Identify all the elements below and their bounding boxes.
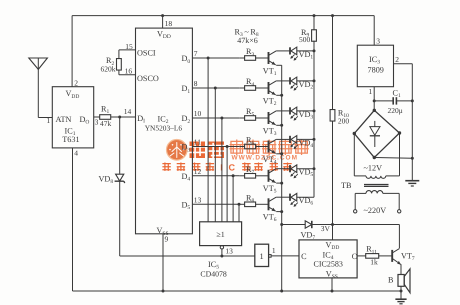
node VD2/rail — [313, 79, 316, 82]
resistor R5 — [245, 116, 256, 121]
svg-text:C: C — [301, 252, 307, 261]
svg-text:VDD: VDD — [326, 241, 340, 252]
wire IC1 pin4 down — [72, 148, 74, 291]
wire IC2 pin 11 to R6 — [192, 146, 239, 148]
terminal circle left — [354, 210, 357, 213]
node emitter rail row 4 — [280, 152, 283, 155]
ground right — [405, 180, 419, 182]
wire R7 to VT5 base — [256, 175, 269, 177]
svg-text:13: 13 — [225, 247, 233, 256]
watermark text weiku bold — [190, 142, 206, 159]
LED VD1 — [289, 47, 291, 54]
transistor VT5 — [268, 170, 270, 182]
wire bottom rail — [73, 290, 402, 292]
svg-text:VD8: VD8 — [99, 174, 114, 185]
svg-text:200: 200 — [338, 116, 350, 125]
wire VD2 anode to R9 rail — [297, 80, 314, 82]
svg-text:12: 12 — [194, 167, 202, 176]
wire top rail to IC3 pin3 — [373, 16, 375, 46]
resistor R2 620k — [118, 50, 120, 59]
wire speaker to bottom rail — [400, 286, 402, 291]
watermark logo circle — [167, 140, 188, 161]
wire 3V node to IC4 VDD — [332, 225, 334, 240]
node bridge bottom — [373, 156, 376, 159]
svg-text:10: 10 — [194, 109, 202, 118]
resistor R4 — [245, 86, 256, 91]
svg-text:D1: D1 — [182, 84, 191, 95]
wire IC2 pin 10 to R5 — [192, 117, 239, 119]
node bridge right — [398, 131, 401, 134]
transistor VT7 — [391, 250, 393, 262]
resistor R7 — [245, 174, 256, 179]
transistor VT6 — [268, 198, 270, 210]
LED VD2 — [289, 77, 291, 84]
voltage regulator IC3 7809 — [357, 45, 393, 86]
node 3V — [331, 223, 334, 226]
svg-text:8: 8 — [194, 79, 198, 88]
node emitter rail / VD7 wire — [280, 223, 283, 226]
svg-text:TB: TB — [341, 181, 352, 190]
wire R11 to VT7 base — [379, 255, 393, 257]
svg-text:D0: D0 — [182, 54, 191, 65]
wire R1 to IC2 pin14 — [111, 116, 136, 118]
transistor VT2 — [268, 82, 270, 94]
wire IC3 pin1 — [373, 87, 375, 111]
node emitter-rail/bottom rail — [280, 290, 283, 293]
svg-text:DO: DO — [80, 115, 90, 126]
transformer core — [364, 184, 389, 186]
svg-text:VDD: VDD — [157, 30, 171, 41]
watermark slogan row — [162, 163, 170, 171]
svg-text:16: 16 — [125, 67, 133, 76]
node emitter rail row 2 — [280, 94, 283, 97]
svg-text:7809: 7809 — [368, 66, 384, 75]
op-amp IC1 T631 receiver — [52, 87, 93, 148]
node emitter rail row 6 — [280, 210, 283, 213]
LED VD6 — [289, 194, 291, 201]
svg-text:11: 11 — [194, 138, 201, 147]
wire node to VD8 — [119, 117, 121, 174]
node pin1/C1 — [373, 99, 376, 102]
node VD1/rail — [313, 49, 316, 52]
wire IC1 pin3 — [94, 116, 100, 118]
svg-text:VT3: VT3 — [263, 126, 277, 137]
wire OSC1 pin15 stub — [119, 49, 136, 51]
svg-text:47k×6: 47k×6 — [237, 36, 258, 45]
svg-text:2: 2 — [395, 55, 399, 64]
bridge rectifier diamond — [354, 110, 399, 157]
node pin9/bottom rail — [162, 290, 165, 293]
wire IC2 pin 7 to R3 — [192, 57, 239, 59]
svg-text:VDD: VDD — [66, 89, 80, 100]
svg-text:ATN: ATN — [56, 115, 72, 124]
wire IC3 pin2 — [394, 63, 413, 65]
svg-text:VT7: VT7 — [401, 251, 415, 262]
node speaker / bottom rail — [400, 290, 403, 293]
wire VT5 emitter to rail — [276, 182, 282, 184]
svg-text:9: 9 — [165, 235, 169, 244]
node IC4 VSS/bottom rail — [331, 290, 334, 293]
svg-text:620k: 620k — [101, 64, 116, 73]
wire OR-gate input 5 — [232, 176, 234, 222]
wire VD5 anode to R9 rail — [297, 168, 314, 170]
resistor R3 — [245, 56, 256, 61]
op-amp IC4 CIC2583 — [299, 240, 357, 278]
wire R6 to VT4 base — [256, 146, 269, 148]
terminal circle right — [398, 210, 401, 213]
wire VD7 to 3V node — [312, 224, 333, 226]
wire IC4 VSS to bottom rail — [331, 278, 333, 291]
wire IC2 pin18 — [162, 16, 164, 29]
wire common emitter rail — [281, 65, 283, 224]
svg-text:OSCO: OSCO — [137, 74, 159, 83]
resistor R10 200 — [330, 110, 335, 122]
svg-text:D5: D5 — [182, 201, 191, 212]
wire VT3 collector to VD3 — [276, 110, 290, 112]
svg-text:CIC2583: CIC2583 — [314, 259, 343, 268]
wire buffer to IC4 C — [271, 255, 299, 257]
wire IC1 pin2 to top rail — [71, 16, 73, 87]
ground under speaker — [400, 291, 402, 299]
capacitor C1 220u — [374, 100, 393, 102]
wire VD1 anode to R9 rail — [297, 50, 314, 52]
wire top rail to R10 — [332, 16, 334, 109]
svg-text:VT1: VT1 — [263, 66, 277, 77]
wire emitter rail to bottom rail — [281, 225, 283, 292]
svg-text:~220V: ~220V — [364, 206, 387, 215]
resistor R11 1k — [366, 254, 379, 259]
svg-text:15: 15 — [125, 42, 133, 51]
node emitter rail row 5 — [280, 182, 283, 185]
node top rail / R10 — [331, 14, 334, 17]
svg-text:7: 7 — [194, 49, 198, 58]
node bottom-vertex wire / rail — [411, 157, 414, 160]
svg-text:2: 2 — [74, 79, 78, 88]
svg-text:3: 3 — [95, 118, 99, 127]
svg-text:14: 14 — [124, 107, 132, 116]
node VD5/rail — [313, 167, 316, 170]
svg-text:3V: 3V — [321, 224, 331, 233]
svg-text:13: 13 — [194, 195, 202, 204]
gate IC5 CD4078 — [200, 222, 242, 246]
wire OSCO pin16 stub — [119, 74, 136, 76]
LED VD4 — [289, 136, 291, 143]
resistor R9 500 — [313, 16, 315, 31]
svg-text:OSCI: OSCI — [137, 49, 156, 58]
svg-text:R1: R1 — [101, 105, 109, 116]
node emitter rail row 3 — [280, 124, 283, 127]
wire VT1 collector to VD1 — [276, 50, 290, 52]
svg-text:VT6: VT6 — [263, 213, 277, 224]
svg-text:1: 1 — [47, 116, 51, 125]
transformer TB primary ~220V — [355, 192, 366, 194]
op-amp IC2 YN5203-L6 decoder — [136, 28, 193, 234]
resistor R1 47k — [100, 115, 111, 120]
wire antenna to IC1 pin1 — [37, 69, 39, 117]
wire R4 to VT2 base — [256, 87, 269, 89]
wire VT2 emitter to rail — [276, 94, 282, 96]
wire IC2 pin9 VSS to bottom rail — [162, 234, 164, 291]
wire OR-gate input 1 — [207, 58, 209, 222]
wire VT5 collector to VD5 — [276, 168, 290, 170]
wire IC4 O to R11 — [357, 255, 366, 257]
svg-text:T631: T631 — [62, 135, 79, 144]
transistor VT3 — [268, 112, 270, 124]
wire IC2 pin 8 to R4 — [192, 87, 239, 89]
watermark text dianzishichangwang outline — [230, 140, 245, 156]
wire R8 to VT6 base — [256, 203, 269, 205]
wire VD6 anode to R9 rail — [297, 196, 314, 198]
wire VT1 emitter to rail — [276, 64, 282, 66]
wire emitter rail to VD7 — [282, 224, 306, 226]
wire VT4 collector to VD4 — [276, 138, 290, 140]
wire VD4 anode to R9 rail — [297, 138, 314, 140]
wire OR-gate input 3 — [221, 118, 223, 222]
svg-text:VT5: VT5 — [263, 184, 277, 195]
wire VT4 emitter to rail — [276, 153, 282, 155]
gate output bubble pin 13 — [220, 246, 223, 249]
svg-text:C: C — [229, 162, 236, 172]
diode inside bridge — [374, 121, 376, 127]
node bridge left — [353, 132, 356, 135]
wire VT3 emitter to rail — [276, 124, 282, 126]
wire VT6 emitter to rail — [276, 211, 282, 213]
transistor VT1 — [268, 52, 270, 64]
diode VD7 — [305, 221, 312, 228]
svg-text:220μ: 220μ — [388, 106, 403, 115]
svg-text:1k: 1k — [370, 257, 378, 266]
svg-text:3: 3 — [376, 37, 380, 46]
buffer output square — [269, 255, 272, 258]
svg-text:47k: 47k — [100, 119, 112, 128]
wire VT6 collector to VD6 — [276, 196, 290, 198]
wire VD3 anode to R9 rail — [297, 110, 314, 112]
node top rail / IC2 pin 18 — [161, 14, 164, 17]
svg-text:4: 4 — [74, 149, 78, 158]
wire VT7 emitter to speaker — [400, 264, 402, 274]
svg-text:~12V: ~12V — [364, 163, 383, 172]
node C1 right — [411, 99, 414, 102]
svg-text:B: B — [388, 275, 394, 284]
wire OR-gate input 2 — [214, 88, 216, 222]
wire VD8 down to logic wire — [119, 181, 121, 256]
wire pin2 rail down — [411, 64, 413, 181]
buffer gate 1 — [255, 244, 269, 266]
wire R3 to VT1 base — [256, 57, 269, 59]
wire VT2 collector to VD2 — [276, 80, 290, 82]
svg-text:YN5203–L6: YN5203–L6 — [145, 123, 183, 132]
wire R10 to 3V node — [332, 121, 334, 224]
LED VD5 — [289, 165, 291, 172]
svg-text:D4: D4 — [182, 172, 191, 183]
wire R5 to VT3 base — [256, 117, 269, 119]
svg-text:≥1: ≥1 — [216, 230, 224, 239]
wire OR-gate input 4 — [226, 147, 228, 222]
wire IC2 pin 13 to R8 — [192, 203, 239, 205]
wire 3V node to VT7 collector — [333, 224, 400, 226]
svg-text:VT2: VT2 — [263, 96, 277, 107]
speaker B — [398, 275, 404, 287]
node VD3/rail — [313, 109, 316, 112]
svg-text:1: 1 — [272, 246, 276, 255]
svg-text:D2: D2 — [182, 114, 191, 125]
antenna — [29, 58, 48, 69]
LED VD3 — [289, 107, 291, 114]
svg-text:CD4078: CD4078 — [200, 269, 227, 278]
node R1/VD8 junction — [118, 116, 121, 119]
svg-text:500: 500 — [299, 35, 311, 44]
svg-text:18: 18 — [165, 19, 173, 28]
svg-text:1: 1 — [369, 87, 373, 96]
node VD4/rail — [313, 138, 316, 141]
svg-text:C1: C1 — [393, 88, 401, 99]
wire OR-gate input 6 — [238, 204, 240, 222]
wire IC2 pin 12 to R7 — [192, 175, 239, 177]
resistor R6 — [245, 144, 256, 149]
svg-text:O: O — [352, 252, 358, 261]
transistor VT4 — [268, 141, 270, 153]
node gate output / logic wire — [220, 255, 223, 258]
node bridge top — [373, 109, 376, 112]
wire top supply rail — [72, 15, 374, 17]
node top rail / R9 — [313, 14, 316, 17]
zener diode VD8 — [116, 174, 124, 181]
svg-text:1: 1 — [260, 252, 264, 261]
transformer TB secondary ~12V — [353, 134, 355, 176]
wire bridge bottom to ground rail — [374, 157, 412, 160]
svg-text:IC3: IC3 — [369, 55, 380, 66]
resistor R8 — [245, 202, 256, 207]
